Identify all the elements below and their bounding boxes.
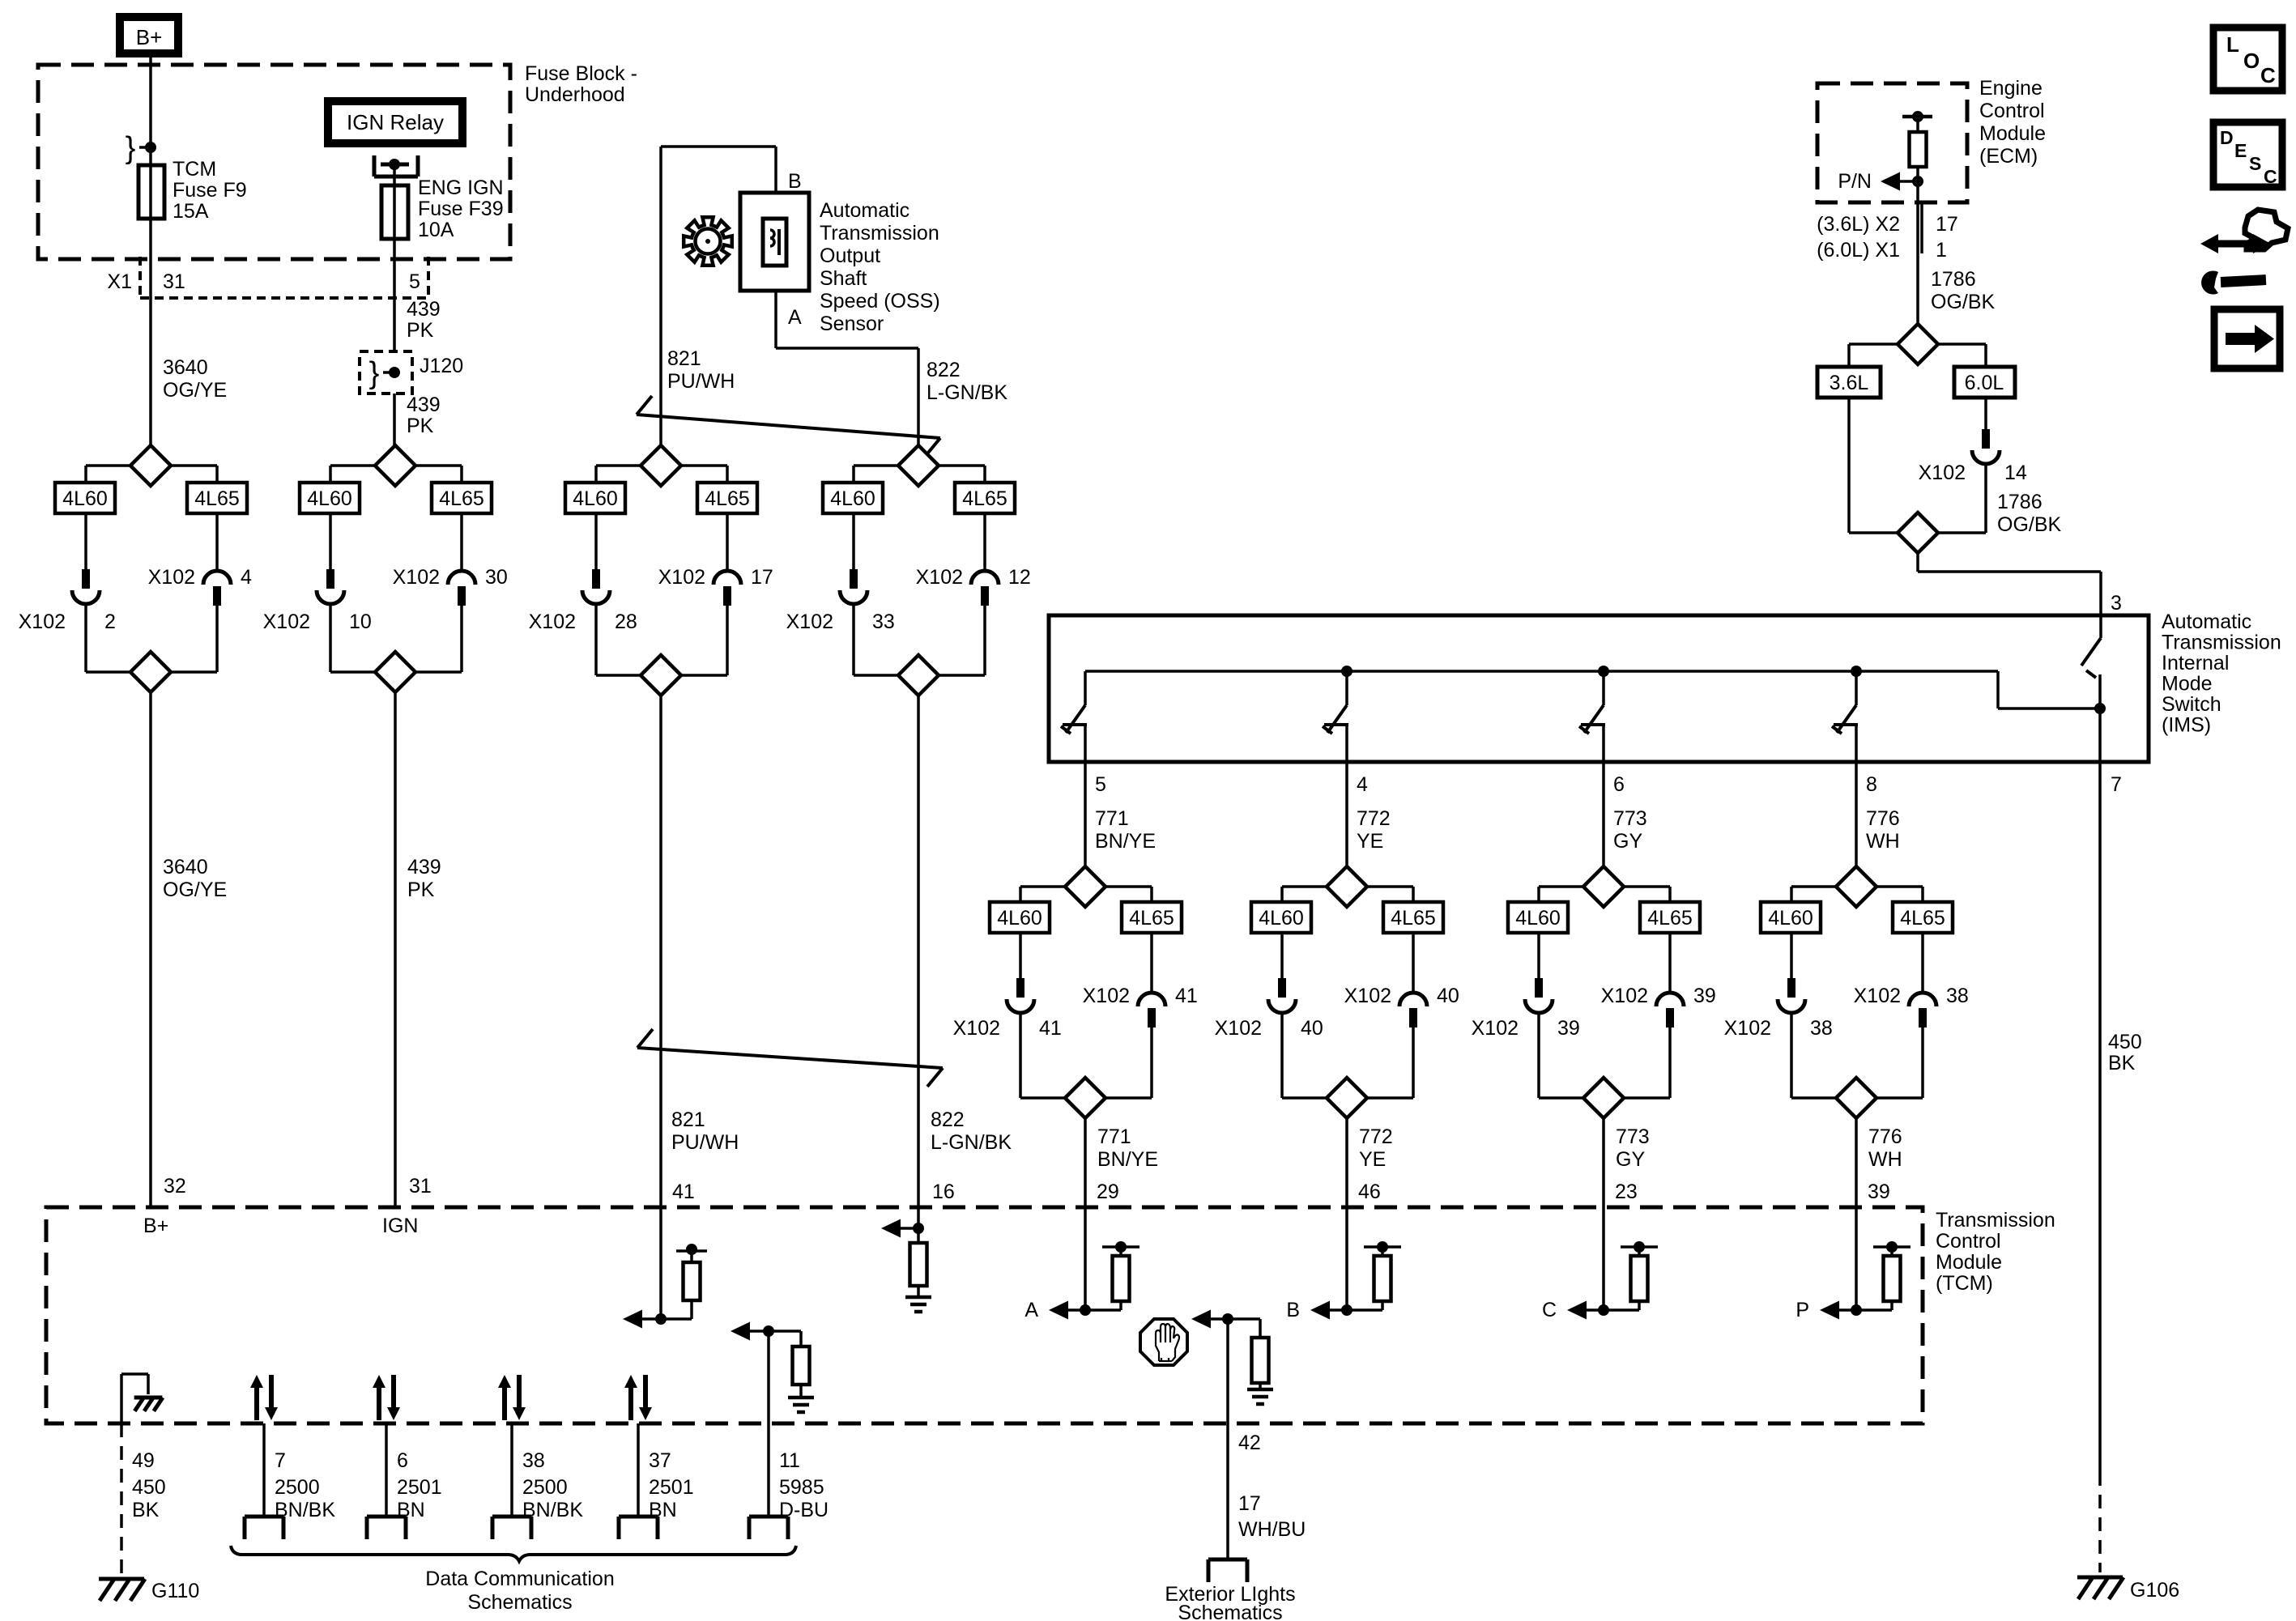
box 6.0L (1954, 367, 2015, 398)
svg-text:4L65: 4L65 (1129, 907, 1174, 930)
TCM pin 11 node with pull-down (763, 1325, 774, 1337)
svg-text:4L65: 4L65 (1647, 907, 1693, 930)
icon DESC (2213, 122, 2282, 187)
svg-text:X102: X102 (1083, 985, 1130, 1007)
svg-text:Automatic: Automatic (2162, 611, 2251, 633)
wire 450 BK to G110 (dashed) (120, 1423, 123, 1575)
svg-text:4L60: 4L60 (830, 487, 875, 510)
ECM dashed box (1817, 83, 1967, 202)
svg-text:40: 40 (1437, 985, 1459, 1007)
svg-text:29: 29 (1097, 1181, 1119, 1203)
svg-text:B+: B+ (143, 1215, 168, 1237)
svg-text:3640: 3640 (163, 856, 208, 879)
svg-text:17: 17 (751, 566, 773, 589)
relay IGN Relay (328, 101, 462, 143)
svg-text:42: 42 (1238, 1432, 1261, 1454)
svg-text:PU/WH: PU/WH (667, 370, 735, 393)
svg-text:4L60: 4L60 (62, 487, 108, 510)
svg-text:Fuse F39: Fuse F39 (418, 198, 504, 220)
svg-text:4L60: 4L60 (307, 487, 352, 510)
svg-text:39: 39 (1693, 985, 1716, 1007)
svg-text:39: 39 (1868, 1181, 1890, 1203)
svg-text:Transmission: Transmission (2162, 632, 2281, 654)
svg-text:776: 776 (1866, 807, 1900, 830)
svg-text:16: 16 (932, 1181, 955, 1203)
svg-text:31: 31 (409, 1175, 432, 1198)
svg-text:39: 39 (1557, 1017, 1580, 1040)
ground G106 (2077, 1576, 2123, 1580)
TCM internal ground pin 49 (120, 1374, 123, 1423)
svg-text:TCM: TCM (173, 158, 216, 181)
svg-text:3.6L: 3.6L (1830, 372, 1869, 394)
svg-text:YE: YE (1359, 1148, 1386, 1171)
ECM internal pull-up (1902, 115, 1932, 119)
connector X102 14 symbol (1982, 429, 1990, 449)
wire 3640 OG/YE to TCM pin 32 (149, 692, 152, 1207)
connector X102 pin 14 on 6.0L branch (1984, 398, 1987, 429)
svg-text:Fuse Block -: Fuse Block - (525, 62, 637, 85)
wire 772 YE from IMS (1345, 762, 1348, 866)
splice diamond group for 771 BN/YE (4L60/4L65) (1084, 865, 1087, 868)
svg-text:B: B (1286, 1299, 1300, 1321)
svg-text:C: C (2260, 63, 2276, 87)
svg-text:Control: Control (1936, 1230, 2001, 1253)
svg-text:439: 439 (407, 394, 441, 416)
splice diamond group for 439 PK (4L60/4L65) (375, 445, 415, 486)
svg-text:BK: BK (132, 1499, 160, 1521)
svg-text:E: E (2234, 140, 2247, 161)
svg-text:771: 771 (1095, 807, 1129, 830)
brace data communication (231, 1546, 796, 1561)
svg-text:11: 11 (779, 1449, 800, 1472)
svg-text:450: 450 (2108, 1031, 2142, 1053)
svg-text:(ECM): (ECM) (1979, 145, 2038, 168)
IMS switch pin 3-7 (2099, 615, 2102, 638)
svg-text:773: 773 (1613, 807, 1647, 830)
svg-text:Shaft: Shaft (820, 267, 867, 290)
svg-text:2500: 2500 (275, 1476, 320, 1499)
svg-text:X102: X102 (1344, 985, 1391, 1007)
TCM range input B with pull-up (1345, 1207, 1348, 1310)
svg-text:439: 439 (407, 856, 441, 879)
svg-text:X102: X102 (19, 611, 66, 633)
svg-text:14: 14 (2004, 462, 2027, 484)
svg-text:X102: X102 (1215, 1017, 1262, 1040)
wire B+ to fuse F9 (149, 53, 152, 165)
svg-text:5: 5 (1095, 773, 1106, 796)
gear icon (684, 217, 732, 266)
svg-text:X102: X102 (916, 566, 963, 589)
svg-text:3640: 3640 (163, 356, 208, 379)
OSS sensor box (740, 193, 809, 291)
svg-text:2500: 2500 (522, 1476, 568, 1499)
splice diamond group for 822 L-GN/BK (4L60/4L65) (898, 445, 939, 486)
svg-text:(IMS): (IMS) (2162, 714, 2211, 737)
svg-text:12: 12 (1008, 566, 1031, 589)
svg-text:771: 771 (1097, 1125, 1131, 1148)
svg-text:37: 37 (649, 1449, 671, 1472)
svg-text:23: 23 (1615, 1181, 1638, 1203)
serial data arrows pin 6 (377, 1386, 381, 1420)
svg-text:Output: Output (820, 245, 880, 267)
svg-text:Underhood: Underhood (525, 83, 625, 106)
serial data arrows pin 37 (628, 1386, 633, 1420)
svg-text:821: 821 (667, 347, 701, 370)
svg-text:4L60: 4L60 (573, 487, 618, 510)
svg-text:7: 7 (275, 1449, 286, 1472)
svg-text:Internal: Internal (2162, 652, 2229, 674)
svg-text:772: 772 (1359, 1125, 1393, 1148)
svg-text:6.0L: 6.0L (1965, 372, 2004, 394)
svg-text:4L60: 4L60 (997, 907, 1042, 930)
svg-text:Module: Module (1979, 122, 2046, 145)
svg-text:X102: X102 (529, 611, 576, 633)
TCM dashed box (46, 1207, 1923, 1423)
svg-text:4: 4 (1357, 773, 1368, 796)
svg-text:5985: 5985 (779, 1476, 824, 1499)
engine merge diamond (1849, 531, 1898, 534)
connector X1 boundary (dashed) (138, 257, 142, 298)
svg-text:G106: G106 (2130, 1579, 2179, 1602)
svg-text:L: L (2226, 32, 2239, 57)
TCM range input C with pull-up (1602, 1207, 1605, 1310)
svg-text:41: 41 (1175, 985, 1198, 1007)
svg-text:YE: YE (1357, 830, 1383, 853)
svg-text:Schematics: Schematics (1178, 1602, 1282, 1621)
svg-text:17: 17 (1238, 1492, 1261, 1515)
TCM pin 41 input with pull-up (659, 1207, 662, 1319)
svg-text:BK: BK (2108, 1052, 2136, 1074)
svg-text:Data Communication: Data Communication (425, 1568, 614, 1590)
svg-text:4L65: 4L65 (705, 487, 750, 510)
svg-text:17: 17 (1936, 213, 1958, 236)
svg-text:P/N: P/N (1838, 170, 1872, 193)
splice diamond group for 821 PU/WH (4L60/4L65) (641, 445, 681, 486)
IMS switch pin 6 (1598, 666, 1609, 677)
svg-text:32: 32 (164, 1175, 186, 1198)
TCM pin 16 input with pull-down to ground (917, 1207, 920, 1228)
wire 439 PK below J120 (393, 394, 396, 445)
svg-text:PU/WH: PU/WH (671, 1131, 739, 1154)
svg-text:773: 773 (1616, 1125, 1650, 1148)
splice diamond group for 772 YE (4L60/4L65) (1345, 865, 1348, 868)
svg-text:772: 772 (1357, 807, 1391, 830)
svg-text:X102: X102 (1601, 985, 1648, 1007)
svg-text:IGN Relay: IGN Relay (347, 110, 444, 134)
svg-text:J120: J120 (420, 355, 463, 377)
wire ECM pin to split (1916, 181, 1919, 324)
svg-text:B+: B+ (136, 25, 163, 49)
svg-text:Schematics: Schematics (467, 1591, 572, 1614)
svg-text:3: 3 (2111, 592, 2122, 615)
svg-text:38: 38 (522, 1449, 545, 1472)
svg-text:GY: GY (1616, 1148, 1645, 1171)
OSS sensing element (763, 219, 786, 266)
IMS switch pin 4 (1341, 666, 1352, 677)
svg-text:40: 40 (1301, 1017, 1323, 1040)
svg-text:38: 38 (1946, 985, 1969, 1007)
svg-text:B: B (788, 170, 802, 193)
svg-text:O: O (2243, 49, 2260, 73)
wire 5985 D-BU below TCM (767, 1423, 770, 1517)
svg-text:Engine: Engine (1979, 77, 2043, 100)
TCM range input A with pull-up (1084, 1207, 1087, 1310)
svg-text:5: 5 (409, 270, 420, 293)
relay contact terminal cup (373, 155, 377, 177)
TCM range input P with pull-up (1855, 1207, 1858, 1310)
svg-text:41: 41 (1039, 1017, 1062, 1040)
svg-text:X102: X102 (1724, 1017, 1771, 1040)
svg-text:WH/BU: WH/BU (1238, 1518, 1306, 1541)
svg-text:G110: G110 (151, 1580, 199, 1602)
svg-text:33: 33 (872, 611, 895, 633)
svg-text:BN/YE: BN/YE (1097, 1148, 1158, 1171)
svg-text:WH: WH (1866, 830, 1900, 853)
svg-text:IGN: IGN (382, 1215, 418, 1237)
svg-text:OG/YE: OG/YE (163, 879, 227, 901)
svg-text:Sensor: Sensor (820, 313, 884, 335)
crossover mark lower (637, 1048, 943, 1068)
icon continue arrow (2214, 309, 2280, 368)
svg-text:OG/YE: OG/YE (163, 379, 227, 402)
svg-text:}: } (126, 131, 136, 165)
svg-text:8: 8 (1866, 773, 1877, 796)
IMS box outline (1049, 615, 2149, 762)
svg-text:X102: X102 (263, 611, 310, 633)
wire 771 BN/YE to TCM (1084, 1118, 1087, 1207)
svg-text:4L65: 4L65 (1900, 907, 1945, 930)
svg-text:ENG IGN: ENG IGN (418, 177, 504, 199)
svg-text:2: 2 (104, 611, 116, 633)
svg-text:X102: X102 (658, 566, 705, 589)
serial data arrows pin 38 (502, 1386, 507, 1420)
svg-text:49: 49 (132, 1449, 155, 1472)
TCM pin 42 node with pull-down (1222, 1313, 1233, 1325)
wire 772 YE to TCM (1345, 1118, 1348, 1207)
svg-text:X102: X102 (148, 566, 195, 589)
svg-text:1: 1 (1936, 239, 1947, 262)
svg-text:WH: WH (1868, 1148, 1902, 1171)
wire from fuse F9 to connector X1 (149, 219, 152, 298)
svg-text:Module: Module (1936, 1251, 2002, 1274)
IMS internal bus (1085, 670, 1998, 673)
fuse F9 TCM 15A (138, 165, 164, 219)
wire 771 BN/YE from IMS (1084, 762, 1087, 866)
svg-text:6: 6 (1613, 773, 1625, 796)
icon shortcut arrows with wrench (2200, 234, 2218, 253)
ECM pin boundary tick (1920, 204, 1923, 253)
wire 439 PK to TCM pin 31 (394, 692, 397, 1207)
svg-text:439: 439 (407, 298, 441, 321)
svg-text:Automatic: Automatic (820, 199, 909, 222)
svg-text:1786: 1786 (1997, 491, 2043, 513)
svg-text:2501: 2501 (397, 1476, 442, 1499)
svg-text:PK: PK (407, 415, 434, 437)
splice diamond group for 3640 OG/YE (4L60/4L65) (130, 445, 171, 486)
svg-text:41: 41 (672, 1181, 695, 1203)
wire 776 WH to TCM (1855, 1118, 1858, 1207)
wire 3.6L branch (1847, 398, 1851, 533)
wire 439 PK upper (393, 298, 396, 351)
svg-text:A: A (788, 306, 802, 329)
wire 450 BK to G106 (2098, 762, 2102, 1472)
svg-text:38: 38 (1810, 1017, 1833, 1040)
svg-text:4L60: 4L60 (1515, 907, 1561, 930)
wire 3640 OG/YE upper (149, 298, 152, 445)
svg-text:X102: X102 (786, 611, 833, 633)
svg-text:4L65: 4L65 (194, 487, 240, 510)
svg-text:776: 776 (1868, 1125, 1902, 1148)
svg-text:7: 7 (2111, 773, 2122, 796)
svg-text:BN/YE: BN/YE (1095, 830, 1156, 853)
svg-text:46: 46 (1358, 1181, 1381, 1203)
splice J120 (360, 351, 412, 394)
svg-text:PK: PK (407, 319, 434, 342)
svg-text:1786: 1786 (1931, 268, 1976, 291)
svg-text:X102: X102 (1854, 985, 1901, 1007)
wire relay to fuse F39 (393, 164, 396, 185)
svg-text:Transmission: Transmission (820, 222, 939, 245)
IMS switch pin 5 (1084, 671, 1087, 705)
wire 773 GY from IMS (1602, 762, 1605, 866)
fuse block underhood dashed box (38, 65, 510, 259)
P/N arrow (1881, 172, 1900, 191)
splice diamond group for 776 WH (4L60/4L65) (1855, 865, 1858, 868)
svg-text:(6.0L) X1: (6.0L) X1 (1817, 239, 1900, 262)
fuse F39 ENG IGN 10A (381, 185, 408, 239)
wire 773 GY to TCM (1602, 1118, 1605, 1207)
wire 821 PU/WH to TCM pin 41 (659, 696, 662, 1207)
IMS switch pin 8 (1851, 666, 1862, 677)
svg-text:C: C (2264, 166, 2277, 187)
svg-text:Transmission: Transmission (1936, 1209, 2055, 1232)
svg-text:Control: Control (1979, 100, 2045, 122)
svg-text:(TCM): (TCM) (1936, 1272, 1993, 1295)
wire 822 L-GN/BK to TCM pin 16 (917, 696, 920, 1207)
svg-text:31: 31 (163, 270, 185, 293)
wire to IMS pin 3 (1916, 553, 1919, 572)
svg-text:(3.6L) X2: (3.6L) X2 (1817, 213, 1900, 236)
svg-text:GY: GY (1613, 830, 1642, 853)
svg-text:Fuse F9: Fuse F9 (173, 179, 247, 202)
svg-text:OG/BK: OG/BK (1997, 513, 2062, 536)
svg-text:4L65: 4L65 (1391, 907, 1436, 930)
svg-text:822: 822 (926, 359, 961, 381)
power symbol B+ (120, 17, 178, 53)
svg-text:6: 6 (397, 1449, 408, 1472)
svg-text:28: 28 (615, 611, 637, 633)
icon LOC (2213, 28, 2282, 91)
wire fuse F39 to pin 5 (393, 239, 396, 298)
svg-text:OG/BK: OG/BK (1931, 291, 1996, 313)
svg-text:P: P (1795, 1299, 1809, 1321)
svg-text:450: 450 (132, 1476, 166, 1499)
svg-text:4L65: 4L65 (962, 487, 1007, 510)
svg-text:4L60: 4L60 (1259, 907, 1304, 930)
svg-text:L-GN/BK: L-GN/BK (931, 1131, 1012, 1154)
svg-text:PK: PK (407, 879, 435, 901)
svg-text:}: } (369, 356, 380, 390)
svg-text:10A: 10A (418, 219, 454, 241)
svg-text:10: 10 (349, 611, 372, 633)
svg-text:4: 4 (241, 566, 252, 589)
svg-text:Mode: Mode (2162, 673, 2213, 696)
svg-text:C: C (1542, 1299, 1557, 1321)
svg-text:2501: 2501 (649, 1476, 694, 1499)
serial data arrows pin 7 (254, 1386, 259, 1420)
wire B (821) from sensor (774, 147, 777, 193)
svg-text:S: S (2249, 153, 2261, 174)
wire A (822) from sensor (774, 291, 777, 348)
svg-text:X1: X1 (107, 270, 132, 293)
svg-text:Switch: Switch (2162, 693, 2221, 716)
svg-text:D: D (2220, 127, 2234, 148)
svg-text:15A: 15A (173, 200, 209, 223)
svg-text:X102: X102 (1919, 462, 1966, 484)
engine split diamond (1898, 324, 1938, 364)
svg-text:30: 30 (485, 566, 508, 589)
svg-text:X102: X102 (393, 566, 440, 589)
svg-text:Speed (OSS): Speed (OSS) (820, 290, 940, 313)
wire 42 17 WH/BU to exterior lights (1226, 1423, 1229, 1559)
svg-text:4L60: 4L60 (1768, 907, 1813, 930)
svg-text:822: 822 (931, 1108, 965, 1131)
svg-text:821: 821 (671, 1108, 705, 1131)
svg-text:X102: X102 (1472, 1017, 1519, 1040)
svg-text:L-GN/BK: L-GN/BK (926, 381, 1007, 404)
ground G110 (99, 1577, 144, 1581)
stop-hand icon (1140, 1319, 1187, 1365)
crossover mark upper (637, 415, 940, 438)
splice diamond group for 773 GY (4L60/4L65) (1602, 865, 1605, 868)
svg-text:A: A (1024, 1299, 1038, 1321)
box 3.6L (1817, 367, 1881, 398)
svg-text:X102: X102 (953, 1017, 1000, 1040)
svg-text:4L65: 4L65 (439, 487, 484, 510)
wire 776 WH from IMS (1855, 762, 1858, 866)
